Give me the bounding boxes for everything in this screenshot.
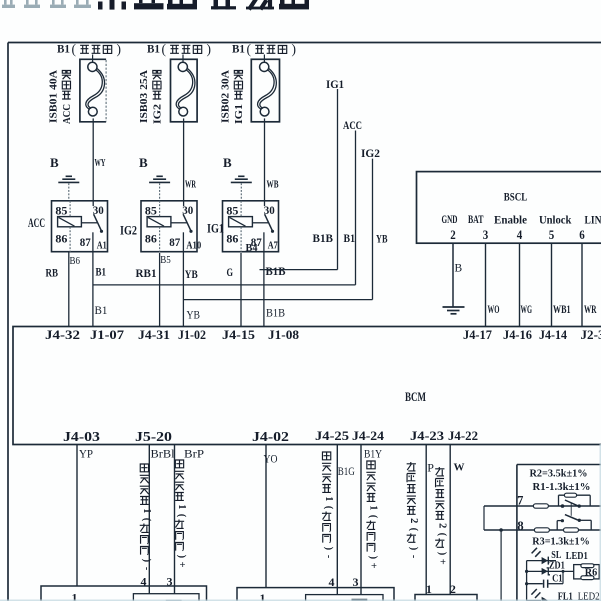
svg-text:P: P <box>427 461 434 475</box>
svg-text:J5-20: J5-20 <box>135 430 172 445</box>
svg-text:2: 2 <box>450 227 456 242</box>
svg-text:ACC: ACC <box>61 104 73 124</box>
svg-text:IG2: IG2 <box>120 224 137 238</box>
svg-text:B: B <box>139 155 148 170</box>
svg-text:J4-17: J4-17 <box>463 327 492 342</box>
svg-text:B1: B1 <box>344 231 356 245</box>
svg-text:1: 1 <box>141 508 152 513</box>
svg-text:86: 86 <box>226 234 238 246</box>
svg-text:BrP: BrP <box>184 447 204 461</box>
svg-text:R6: R6 <box>585 567 598 578</box>
svg-text:IG1: IG1 <box>233 104 245 124</box>
svg-text:A1: A1 <box>97 240 107 252</box>
svg-text:5: 5 <box>549 227 555 242</box>
svg-text:+: + <box>368 563 379 569</box>
svg-text:3: 3 <box>483 227 489 242</box>
svg-text:(: ( <box>141 518 152 522</box>
svg-text:J4-14: J4-14 <box>539 327 567 342</box>
svg-text:B1: B1 <box>57 42 70 56</box>
svg-text:2: 2 <box>408 518 419 523</box>
svg-text:87: 87 <box>80 237 91 249</box>
svg-text:BCM: BCM <box>405 390 426 404</box>
svg-text:A7: A7 <box>268 240 278 252</box>
svg-text:YB: YB <box>376 232 388 246</box>
svg-text:(: ( <box>323 506 334 510</box>
svg-text:ACC: ACC <box>343 118 362 132</box>
svg-text:LIN: LIN <box>585 215 601 227</box>
svg-text:B: B <box>223 155 232 170</box>
svg-text:(: ( <box>436 533 447 537</box>
svg-text:J4-16: J4-16 <box>503 327 532 342</box>
svg-text:J4-32: J4-32 <box>45 327 80 342</box>
svg-text:): ) <box>368 556 379 559</box>
svg-text:J1-07: J1-07 <box>90 327 125 342</box>
svg-text:B1G: B1G <box>338 464 355 478</box>
svg-text:G: G <box>227 265 234 279</box>
svg-text:WG: WG <box>521 304 533 316</box>
svg-text:86: 86 <box>55 234 67 246</box>
svg-text:B1Y: B1Y <box>364 447 382 461</box>
svg-text:YB: YB <box>187 310 201 322</box>
svg-text:): ) <box>323 547 334 550</box>
svg-text:): ) <box>292 42 297 57</box>
svg-text:2: 2 <box>436 523 447 528</box>
svg-text:ACC: ACC <box>28 216 45 230</box>
svg-text:YP: YP <box>79 447 93 461</box>
svg-text:): ) <box>117 42 122 57</box>
svg-text:): ) <box>176 555 187 558</box>
svg-text:B1B: B1B <box>313 231 334 245</box>
svg-text:A10: A10 <box>186 240 201 252</box>
svg-text:R3=1.3k±1%: R3=1.3k±1% <box>532 537 590 548</box>
svg-text:J4-15: J4-15 <box>222 327 256 342</box>
svg-text:4: 4 <box>329 575 335 589</box>
svg-text:B1: B1 <box>95 305 108 317</box>
svg-text:): ) <box>207 42 212 57</box>
svg-text:(: ( <box>408 528 419 532</box>
svg-text:YO: YO <box>264 452 278 466</box>
svg-text:): ) <box>436 552 447 555</box>
svg-text:C1: C1 <box>552 573 563 584</box>
svg-text:4: 4 <box>517 227 523 242</box>
svg-text:): ) <box>141 559 152 562</box>
svg-text:85: 85 <box>55 206 67 218</box>
svg-text:(: ( <box>247 42 252 57</box>
svg-text:RB: RB <box>46 266 59 280</box>
svg-text:-: - <box>323 555 334 559</box>
svg-text:3: 3 <box>353 575 359 589</box>
svg-text:86: 86 <box>145 234 157 246</box>
svg-text:B4: B4 <box>246 242 258 254</box>
svg-text:): ) <box>408 547 419 550</box>
svg-text:85: 85 <box>145 206 157 218</box>
svg-text:GND: GND <box>442 214 458 226</box>
svg-text:J4-22: J4-22 <box>448 429 478 443</box>
svg-text:J1-08: J1-08 <box>268 327 299 342</box>
svg-text:WR: WR <box>584 304 597 316</box>
svg-text:B1: B1 <box>147 42 160 56</box>
svg-text:Enable: Enable <box>494 215 527 227</box>
svg-text:R2=3.5k±1%: R2=3.5k±1% <box>530 468 588 479</box>
svg-text:J4-02: J4-02 <box>252 430 289 445</box>
svg-text:+: + <box>436 559 447 565</box>
svg-text:J2-3: J2-3 <box>581 327 601 342</box>
svg-text:IG1: IG1 <box>207 222 224 236</box>
svg-text:W: W <box>454 462 465 474</box>
svg-text:B1B: B1B <box>266 308 285 320</box>
svg-text:Unlock: Unlock <box>539 215 572 227</box>
svg-text:(: ( <box>162 42 167 57</box>
svg-text:B1B: B1B <box>266 264 286 278</box>
svg-text:BAT: BAT <box>468 214 484 226</box>
svg-text:(: ( <box>72 42 77 57</box>
svg-text:-: - <box>408 555 419 559</box>
svg-text:IG1: IG1 <box>326 77 344 91</box>
svg-text:RB1: RB1 <box>136 266 157 280</box>
svg-text:(: ( <box>368 515 379 519</box>
svg-text:1: 1 <box>176 504 187 509</box>
svg-text:BSCL: BSCL <box>504 190 528 204</box>
svg-text:-: - <box>141 567 152 571</box>
svg-text:85: 85 <box>226 206 238 218</box>
svg-text:(: ( <box>176 514 187 518</box>
svg-text:1: 1 <box>72 590 78 601</box>
svg-text:1: 1 <box>368 505 379 510</box>
svg-text:WB1: WB1 <box>553 304 571 316</box>
svg-text:B5: B5 <box>160 254 171 266</box>
svg-text:B: B <box>455 263 463 275</box>
svg-text:J1-02: J1-02 <box>178 327 206 342</box>
svg-text:87: 87 <box>169 237 180 249</box>
svg-text:ISB01 40A: ISB01 40A <box>48 70 60 123</box>
svg-text:J4-25: J4-25 <box>315 429 349 443</box>
svg-text:B: B <box>50 155 59 170</box>
svg-text:6: 6 <box>579 227 585 242</box>
svg-text:IG2: IG2 <box>152 103 164 124</box>
svg-text:B1: B1 <box>232 42 245 56</box>
svg-text:WO: WO <box>488 304 500 316</box>
svg-text:J4-24: J4-24 <box>352 429 385 443</box>
svg-text:1: 1 <box>260 591 266 601</box>
svg-text:J4-23: J4-23 <box>410 429 444 443</box>
svg-text:J4-03: J4-03 <box>63 430 100 445</box>
svg-text:ZD1: ZD1 <box>549 560 565 571</box>
svg-text:1: 1 <box>323 496 334 501</box>
svg-text:IG2: IG2 <box>361 146 380 160</box>
svg-text:J4-31: J4-31 <box>138 327 170 342</box>
svg-text:+: + <box>176 562 187 568</box>
svg-text:BrBl: BrBl <box>151 447 176 461</box>
svg-text:YB: YB <box>185 267 198 281</box>
svg-text:WY: WY <box>95 157 106 169</box>
svg-text:R1-1.3k±1%: R1-1.3k±1% <box>533 482 591 493</box>
svg-text:ISB02 30A: ISB02 30A <box>220 70 232 123</box>
svg-text:B1: B1 <box>96 265 107 279</box>
svg-text:WB: WB <box>267 179 279 191</box>
svg-text:WR: WR <box>185 179 197 191</box>
svg-text:ISB03 25A: ISB03 25A <box>138 70 150 123</box>
svg-text:B6: B6 <box>70 255 81 267</box>
svg-text:LED1: LED1 <box>566 551 588 562</box>
